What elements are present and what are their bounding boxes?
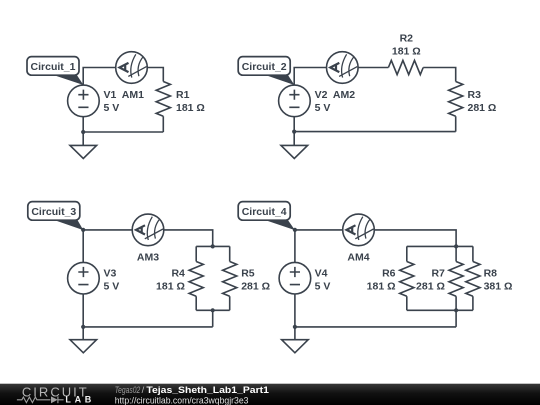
svg-text:AM4: AM4	[347, 252, 369, 264]
svg-text:V1: V1	[104, 89, 117, 101]
svg-text:http://circuitlab.com/cra3wqbg: http://circuitlab.com/cra3wqbgjr3e3	[115, 395, 249, 405]
svg-text:281 Ω: 281 Ω	[468, 102, 497, 114]
svg-text:/: /	[142, 385, 145, 395]
svg-text:R1: R1	[176, 89, 190, 101]
svg-text:Circuit_2: Circuit_2	[242, 61, 287, 73]
svg-text:V2: V2	[315, 89, 328, 101]
svg-text:R5: R5	[241, 267, 255, 279]
svg-text:381 Ω: 381 Ω	[484, 280, 513, 292]
svg-text:AM3: AM3	[137, 252, 159, 264]
svg-text:R4: R4	[171, 267, 185, 279]
svg-text:R2: R2	[400, 33, 414, 45]
svg-text:5 V: 5 V	[315, 102, 331, 114]
svg-text:181 Ω: 181 Ω	[176, 102, 205, 114]
svg-text:281 Ω: 281 Ω	[241, 280, 270, 292]
svg-text:Tejas_Sheth_Lab1_Part1: Tejas_Sheth_Lab1_Part1	[146, 385, 269, 395]
svg-text:281 Ω: 281 Ω	[416, 280, 445, 292]
svg-text:AM1: AM1	[122, 89, 144, 101]
svg-text:5 V: 5 V	[315, 280, 331, 292]
svg-text:Tegas02: Tegas02	[115, 385, 141, 395]
svg-text:V3: V3	[104, 267, 117, 279]
svg-text:181 Ω: 181 Ω	[392, 46, 421, 58]
svg-text:LAB: LAB	[65, 394, 91, 404]
svg-text:181 Ω: 181 Ω	[156, 280, 185, 292]
svg-text:Circuit_3: Circuit_3	[31, 206, 76, 218]
svg-text:181 Ω: 181 Ω	[367, 280, 396, 292]
svg-text:5 V: 5 V	[104, 280, 120, 292]
svg-text:R3: R3	[468, 89, 482, 101]
svg-text:AM2: AM2	[333, 89, 355, 101]
svg-text:Circuit_1: Circuit_1	[31, 61, 76, 73]
svg-text:R8: R8	[484, 267, 498, 279]
svg-text:5 V: 5 V	[104, 102, 120, 114]
svg-text:V4: V4	[315, 267, 328, 279]
svg-text:R6: R6	[382, 267, 396, 279]
svg-text:R7: R7	[431, 267, 445, 279]
svg-text:Circuit_4: Circuit_4	[242, 206, 287, 218]
